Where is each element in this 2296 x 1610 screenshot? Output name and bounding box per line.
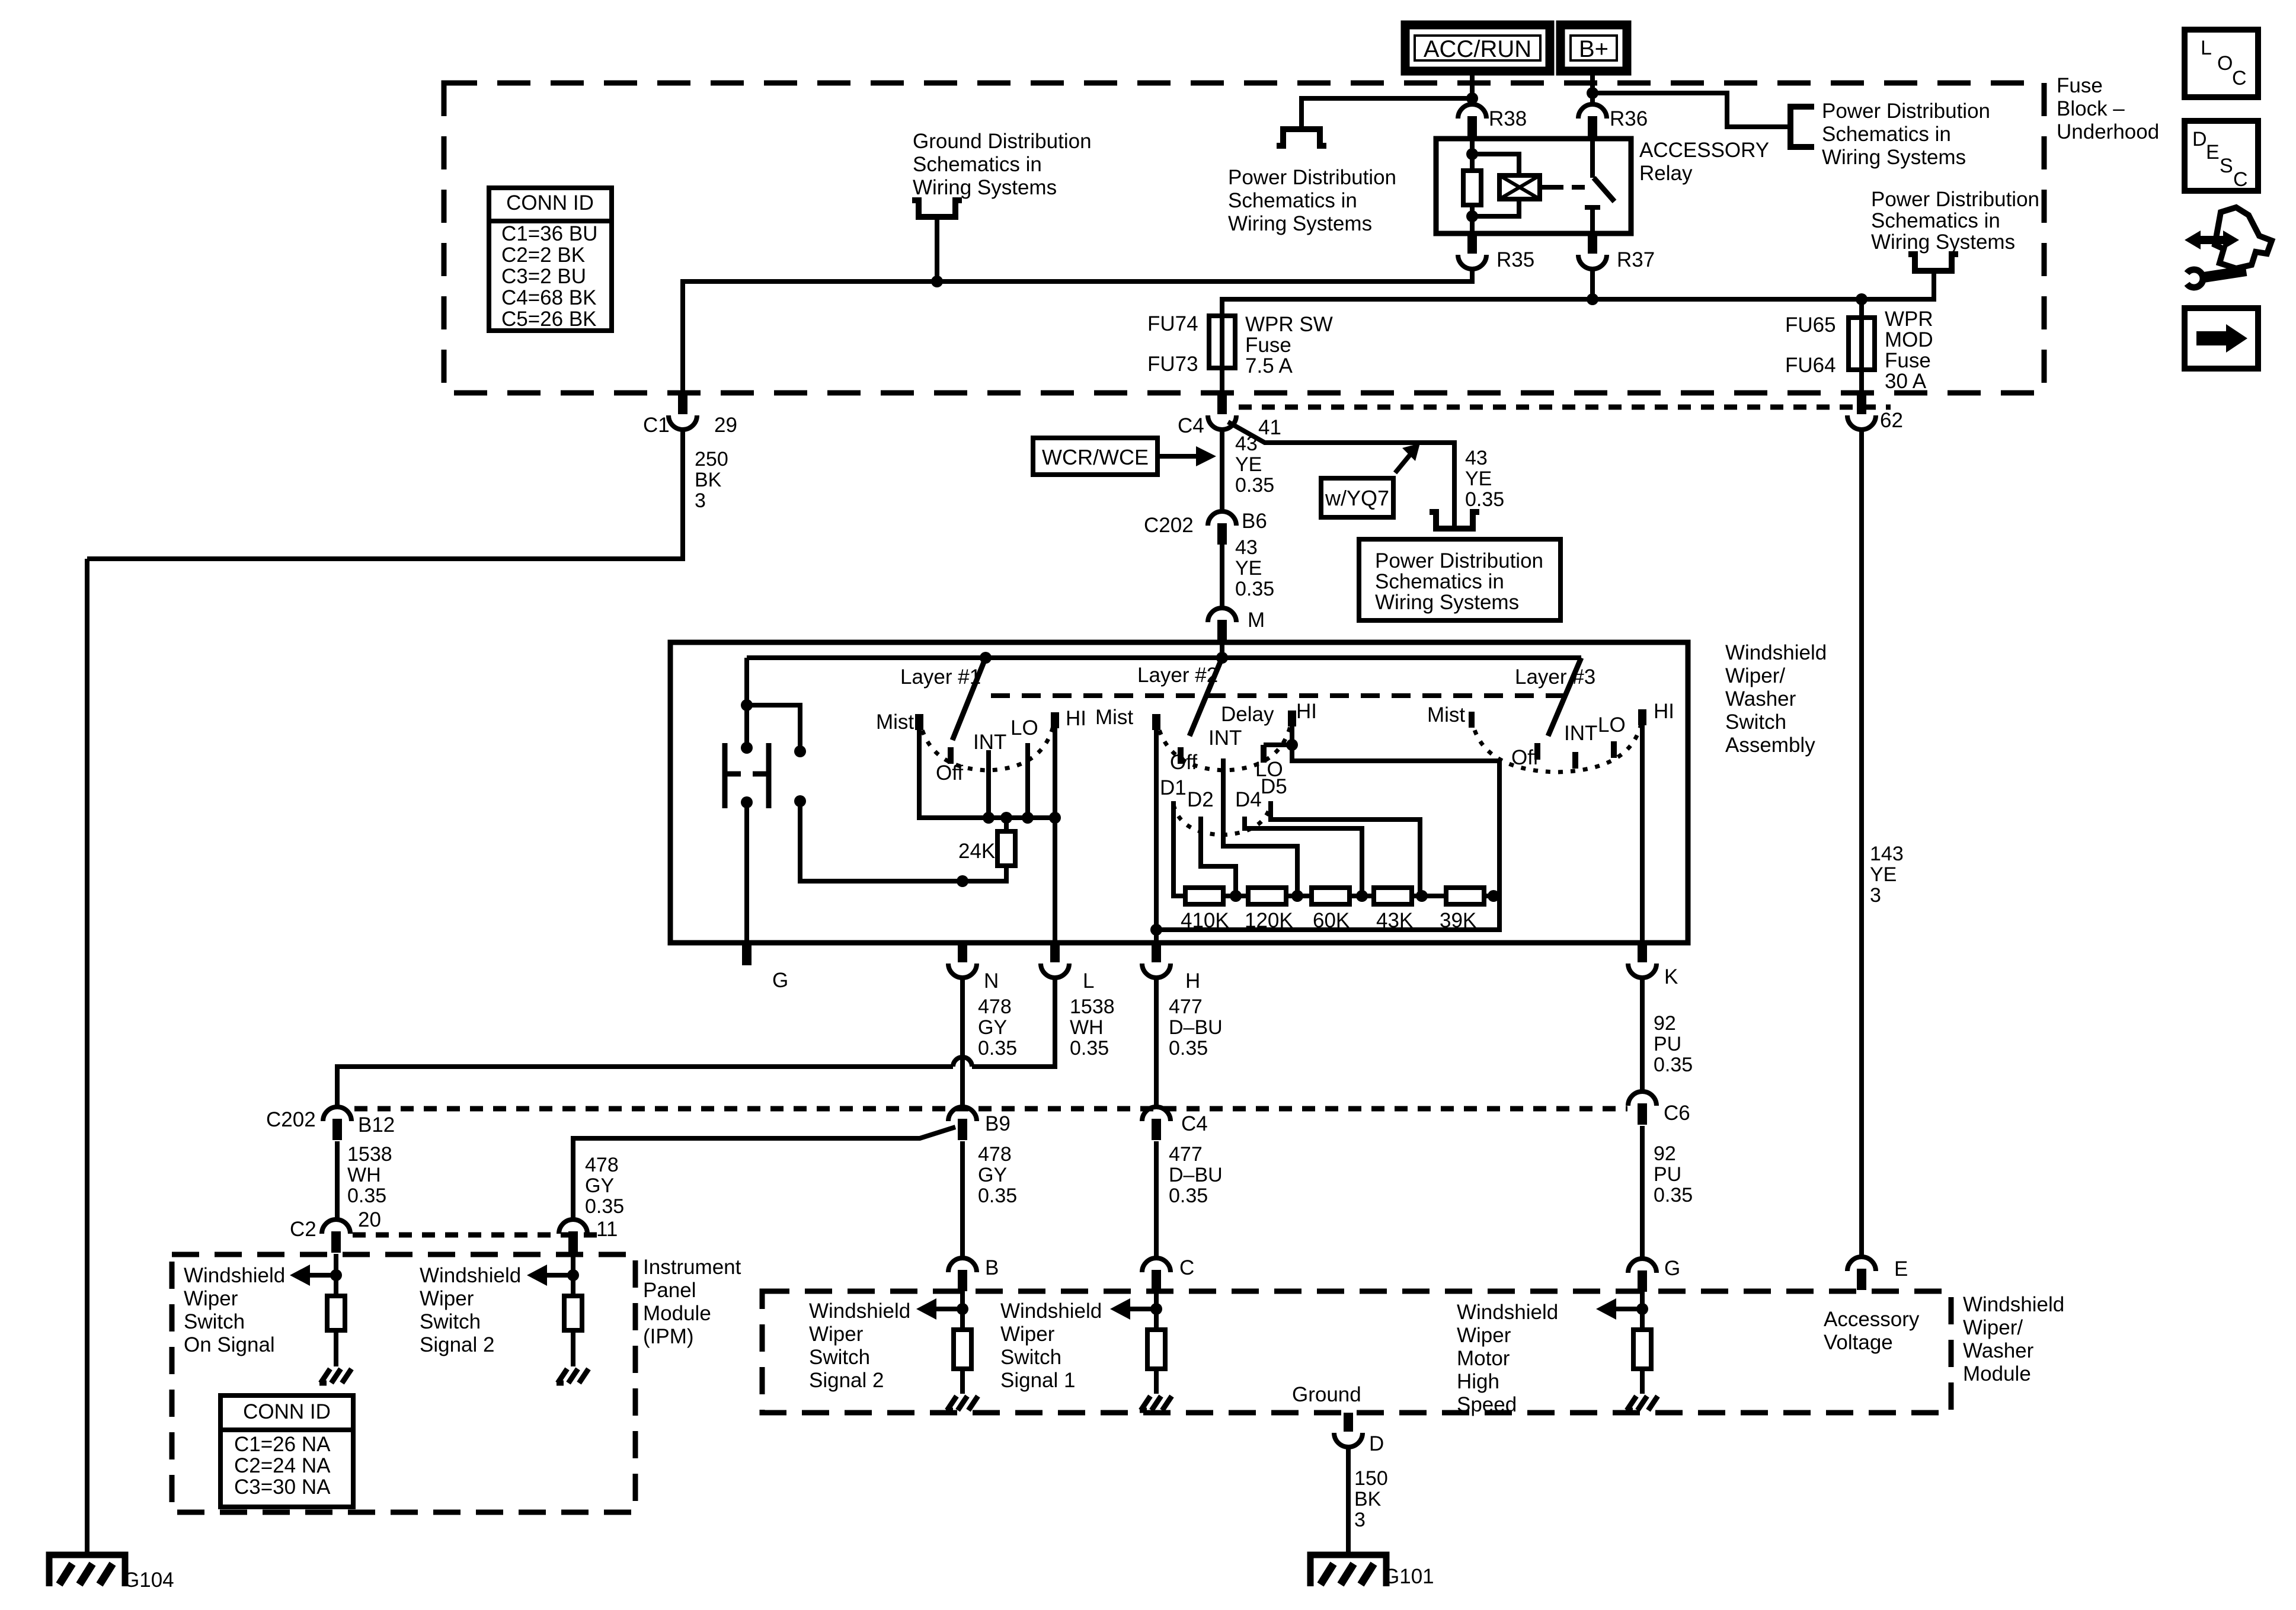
layer2 LO tick [1261,745,1267,763]
wire D1 to chain [1173,801,1185,896]
layer1 Off tick [948,747,954,764]
wire IPM 11 to ground [571,1330,575,1366]
svg-text:S: S [2220,155,2233,177]
svg-text:0.35: 0.35 [347,1185,386,1207]
connector C4 pin 41 [1217,394,1227,414]
layer2 Off tick [1178,747,1184,764]
svg-text:(IPM): (IPM) [643,1325,694,1348]
wire coil to contact dashes [1540,185,1550,190]
svg-text:GY: GY [978,1164,1007,1186]
svg-text:3: 3 [1870,884,1881,907]
svg-text:C1=26 NA: C1=26 NA [234,1433,331,1456]
relay switch lower contact [1585,205,1600,210]
svg-text:YE: YE [1465,468,1492,490]
node B+ box [1560,25,1627,71]
off-page bracket power distribution left [1277,129,1326,146]
svg-text:CONN ID: CONN ID [506,191,594,215]
svg-text:Layer #1: Layer #1 [900,665,981,689]
connector C202 pin C4 lower [1142,1107,1171,1121]
svg-text:WPR: WPR [1885,308,1933,331]
icon DESC box [2185,121,2258,191]
svg-text:0.35: 0.35 [1169,1037,1208,1060]
box power distribution schematics callout [1359,539,1560,620]
wire C6 to G [1640,1126,1645,1259]
svg-text:C4=68 BK: C4=68 BK [501,286,597,309]
wire B+ to R36 [1590,71,1595,105]
svg-text:Wiring Systems: Wiring Systems [1822,146,1966,169]
icon forward arrow box [2185,308,2258,369]
svg-text:D–BU: D–BU [1169,1164,1223,1186]
svg-text:HI: HI [1654,700,1674,723]
svg-text:Windshield: Windshield [809,1299,910,1323]
svg-text:O: O [2217,52,2233,75]
resistor IPM 20 [327,1296,345,1330]
svg-text:WH: WH [1070,1016,1104,1039]
svg-text:E: E [2206,141,2220,164]
washer switch lower contacts [741,796,753,808]
washer switch contact plates [722,743,728,808]
svg-text:478: 478 [585,1154,619,1176]
connector G module [1628,1259,1657,1273]
svg-text:LO: LO [1598,713,1626,737]
icon diagnostic wrench [2198,236,2225,244]
svg-text:D1: D1 [1160,776,1187,799]
svg-text:3: 3 [695,489,706,512]
svg-text:Panel: Panel [643,1279,696,1302]
svg-text:H: H [1185,969,1200,993]
svg-text:Switch: Switch [420,1310,481,1333]
connector IPM pin 11 [559,1219,587,1234]
connector C [1142,1258,1171,1272]
svg-text:M: M [1248,609,1265,632]
wire M into assembly [1220,641,1224,658]
svg-text:C1=36 BU: C1=36 BU [501,222,597,245]
svg-text:Wiper: Wiper [809,1323,864,1346]
svg-text:C202: C202 [1144,514,1194,537]
wire coil bottom branch [1472,199,1519,216]
layer2 INT line staircase [1223,758,1297,896]
svg-text:Power Distribution: Power Distribution [1375,549,1543,572]
svg-text:Wiper/: Wiper/ [1725,664,1785,687]
svg-text:Module: Module [643,1302,711,1325]
svg-text:PU: PU [1654,1033,1681,1055]
svg-text:FU64: FU64 [1785,354,1836,377]
svg-text:High: High [1457,1370,1499,1393]
svg-text:R35: R35 [1496,248,1534,271]
wire IPM 11 interior [571,1254,575,1296]
svg-text:Windshield: Windshield [1725,641,1827,664]
connector R37 [1588,233,1597,254]
svg-text:C6: C6 [1664,1102,1690,1125]
svg-text:On Signal: On Signal [184,1333,275,1356]
svg-text:C2=2 BK: C2=2 BK [501,244,585,267]
layer3 Mist tick [1469,712,1475,728]
svg-text:B+: B+ [1579,36,1609,62]
svg-text:Mist: Mist [876,710,914,734]
svg-text:Motor: Motor [1457,1347,1510,1370]
svg-text:HI: HI [1296,700,1317,723]
svg-text:Signal 2: Signal 2 [809,1369,884,1392]
layer1 LO line [1025,743,1030,818]
svg-text:Mist: Mist [1427,703,1465,726]
layer3 INT tick [1572,752,1578,769]
resistor chain wire [1185,894,1499,898]
svg-text:K: K [1664,965,1678,988]
resistor relay internal [1463,171,1481,205]
svg-text:Wiper: Wiper [1000,1323,1055,1346]
svg-text:60K: 60K [1313,909,1350,932]
svg-text:0.35: 0.35 [1465,488,1504,511]
connector B [948,1258,977,1272]
fuse FU74 WPR SW [1220,316,1224,393]
wire B6 to M [1220,545,1224,608]
svg-text:43K: 43K [1376,909,1413,932]
svg-text:BK: BK [695,469,722,491]
wire module G ground [1640,1369,1645,1394]
wire module C interior [1154,1291,1159,1330]
arrow windshield wiper switch on signal [309,1273,336,1278]
off-page bracket ground distribution [912,200,962,217]
wire B9 to B [960,1141,965,1258]
svg-text:WH: WH [347,1164,381,1186]
svg-text:G: G [772,969,788,992]
svg-text:Switch: Switch [184,1310,245,1333]
svg-text:41: 41 [1258,416,1281,439]
svg-text:11: 11 [596,1218,618,1241]
layer3 HI line to K terminal [1640,709,1645,943]
svg-text:Accessory: Accessory [1824,1308,1920,1331]
svg-text:R37: R37 [1617,248,1655,271]
svg-text:Switch: Switch [1725,710,1786,734]
conn id table IPM [220,1395,353,1507]
wire module B interior [960,1291,965,1330]
off-page bracket wYQ7 feed [1430,512,1479,529]
svg-text:120K: 120K [1245,909,1293,932]
svg-text:Ground: Ground [1292,1383,1361,1406]
layer2 delay arc [1173,805,1271,835]
instrument panel module box [172,1254,635,1512]
connector C202 pin C6 [1628,1092,1657,1106]
layer1 blade [952,658,986,740]
svg-text:E: E [1894,1257,1908,1281]
layer1 INT line [986,750,991,818]
wire D5 to chain [1271,801,1420,896]
arrow wYQ7 [1395,453,1412,473]
layer1 Mist line [919,714,1055,818]
svg-text:Windshield: Windshield [420,1264,521,1287]
svg-text:Wiper: Wiper [420,1287,474,1310]
svg-text:Signal 2: Signal 2 [420,1333,494,1356]
resistor 60K [1312,888,1350,904]
svg-text:C: C [2232,67,2247,89]
resistor module G [1633,1330,1651,1369]
box wYQ7 [1321,478,1393,517]
svg-text:3: 3 [1354,1509,1366,1531]
arrow WCR/WCE [1157,454,1198,459]
svg-text:477: 477 [1169,996,1203,1018]
svg-text:62: 62 [1880,409,1903,432]
svg-text:Underhood: Underhood [2057,120,2159,143]
svg-text:250: 250 [695,448,728,470]
svg-text:CONN ID: CONN ID [243,1400,331,1423]
wire ground distribution drop [935,217,939,281]
svg-text:Relay: Relay [1639,162,1693,185]
connector E [1847,1257,1876,1271]
svg-text:7.5 A: 7.5 A [1245,354,1293,377]
arrow windshield wiper switch signal 2 IPM [546,1273,573,1278]
svg-text:FU73: FU73 [1147,353,1198,376]
svg-text:Schematics in: Schematics in [1822,123,1951,146]
svg-text:D5: D5 [1261,775,1287,798]
ground G101 [1310,1555,1386,1586]
svg-text:D–BU: D–BU [1169,1016,1223,1039]
ground module C [1141,1396,1150,1410]
svg-text:Washer: Washer [1963,1339,2034,1362]
svg-text:0.35: 0.35 [1235,578,1274,600]
connector C202 pin B12 [323,1107,351,1121]
wire coil top branch [1472,154,1519,177]
node junction ground distribution drop [931,276,943,287]
resistor 39K [1446,888,1484,904]
wire K to C6 [1640,978,1645,1092]
svg-text:C2=24 NA: C2=24 NA [234,1454,331,1477]
svg-text:D: D [1369,1432,1384,1455]
node chain junctions [1230,890,1242,902]
terminal G stub [742,943,752,965]
node junction layer2 mist bottom [1150,924,1162,936]
ground IPM 20 [321,1369,330,1383]
svg-text:Off: Off [1511,746,1539,769]
svg-text:Voltage: Voltage [1824,1331,1893,1354]
svg-text:B12: B12 [358,1113,395,1137]
svg-text:C: C [2233,168,2248,191]
svg-text:Off: Off [1170,751,1197,774]
svg-text:Windshield: Windshield [1457,1301,1558,1324]
svg-text:143: 143 [1870,843,1904,865]
wire L to B12 with hop [972,978,1055,1067]
svg-text:LO: LO [1011,716,1038,740]
wire D2 to chain [1201,817,1236,896]
layer1 HI line to L terminal [1053,712,1057,943]
svg-text:477: 477 [1169,1143,1203,1166]
svg-text:L: L [1083,969,1094,993]
connector C1 pin 29 [678,394,687,414]
node junction N tap [957,875,968,887]
svg-text:D4: D4 [1235,788,1262,811]
washer switch upper branch [747,705,800,747]
svg-text:43: 43 [1235,536,1258,559]
relay switch blade [1594,178,1614,201]
svg-text:Fuse: Fuse [2057,74,2103,97]
connector 62 [1857,394,1866,414]
svg-text:20: 20 [358,1208,381,1231]
svg-text:Speed: Speed [1457,1393,1517,1416]
svg-text:C2: C2 [290,1218,316,1241]
svg-text:150: 150 [1354,1467,1388,1490]
wire relay coil leg [1470,137,1475,171]
layer2 Mist line to H terminal [1154,714,1159,943]
svg-text:30 A: 30 A [1885,370,1927,393]
svg-text:G: G [1664,1257,1680,1280]
svg-text:1538: 1538 [1070,996,1115,1018]
ground IPM 11 [558,1369,567,1383]
svg-text:BK: BK [1354,1488,1382,1510]
svg-text:YE: YE [1870,863,1897,886]
svg-text:43: 43 [1465,447,1488,469]
svg-text:Windshield: Windshield [1000,1299,1102,1323]
svg-text:Wiring Systems: Wiring Systems [1375,591,1519,614]
svg-text:INT: INT [1564,722,1597,745]
svg-text:24K: 24K [958,840,995,863]
arrow windshield wiper switch signal 1 [1129,1307,1156,1311]
connector R38 [1458,104,1486,119]
svg-text:410K: 410K [1181,909,1229,932]
svg-text:0.35: 0.35 [585,1195,624,1218]
node junction ACC/RUN [1466,92,1478,104]
svg-text:w/YQ7: w/YQ7 [1325,486,1389,510]
svg-text:HI: HI [1066,707,1086,730]
layer3 Off tick [1534,743,1540,760]
svg-text:GY: GY [585,1174,614,1197]
svg-text:Wiring Systems: Wiring Systems [913,176,1057,199]
svg-text:N: N [984,969,999,993]
svg-text:Instrument: Instrument [643,1256,741,1279]
node junction layer1 pivot [980,652,992,664]
connector C2 pin 20 [322,1219,350,1234]
layer3 blade [1548,658,1581,736]
connector N [958,942,967,962]
wire washer to 24K bottom rail [800,805,1006,881]
resistor 120K [1248,888,1286,904]
wire 62 to E [1859,430,1864,1257]
wire branch B+ to right bracket [1593,93,1790,127]
node coil bottom junction [1466,210,1478,222]
wire module C ground [1154,1369,1159,1394]
svg-text:C1: C1 [643,414,670,437]
svg-text:Module: Module [1963,1362,2031,1385]
node junction R37 bus [1587,293,1598,305]
conn id table fuse block [489,188,612,331]
svg-text:C3=30 NA: C3=30 NA [234,1475,331,1499]
relay U-ACCESSORY box [1436,139,1631,233]
wire IPM 20 interior [334,1254,338,1296]
inline connector dotted row C2 [353,1233,599,1238]
svg-text:Schematics in: Schematics in [1871,209,2000,232]
connector H [1152,942,1161,962]
svg-text:Fuse: Fuse [1245,334,1291,357]
ground module G [1627,1396,1636,1410]
inline connector dotted row C4 [1239,405,1891,410]
wire H to C4 connector [1154,978,1159,1107]
svg-text:YE: YE [1235,453,1262,476]
svg-text:Power Distribution: Power Distribution [1871,188,2039,211]
wire B12 to C2 [335,1141,340,1219]
svg-text:0.35: 0.35 [1654,1184,1693,1206]
fuse FU65 WPR MOD [1859,299,1864,393]
svg-text:YE: YE [1235,557,1262,580]
wire bus R35 to C1 [683,269,1472,393]
svg-text:1538: 1538 [347,1143,392,1166]
svg-text:G101: G101 [1383,1565,1434,1588]
wire N to B9 [960,978,965,1107]
svg-text:C5=26 BK: C5=26 BK [501,308,597,331]
svg-text:Delay: Delay [1221,703,1274,726]
svg-text:FU65: FU65 [1785,313,1836,337]
svg-text:C202: C202 [266,1108,316,1131]
wire module B ground [960,1369,965,1394]
svg-text:MOD: MOD [1885,328,1933,351]
svg-text:Wiring Systems: Wiring Systems [1871,231,2015,254]
svg-text:Ground Distribution: Ground Distribution [913,130,1092,153]
svg-text:0.35: 0.35 [978,1037,1017,1060]
node junction B+ [1587,87,1598,99]
node junction FU65 bus [1856,293,1868,305]
svg-text:0.35: 0.35 [978,1185,1017,1207]
washer switch feed wire [744,658,749,743]
svg-text:Assembly: Assembly [1725,734,1815,757]
box WCR/WCE [1033,438,1157,475]
wire B9 branch to IPM 11 [573,1127,955,1219]
resistor module C [1147,1330,1165,1369]
layer3 LO tick [1611,741,1617,758]
svg-text:C3=2 BU: C3=2 BU [501,265,586,288]
svg-text:0.35: 0.35 [1169,1185,1208,1207]
wire assembly top bus [747,655,1581,660]
layer2 HI line [1156,710,1499,930]
svg-text:G104: G104 [123,1569,174,1592]
layer2 HI-LO tie [1264,742,1292,747]
wire ground G104 drop [85,559,89,1554]
off-page bracket power distribution right [1790,107,1814,147]
node ACC/RUN box [1405,25,1550,71]
windshield wiper washer module box [762,1291,1951,1413]
connector R36 [1578,104,1607,119]
relay coil box [1499,175,1540,199]
wire IPM 20 to ground [334,1330,338,1366]
connector C202 pin B6 [1208,511,1236,526]
svg-text:GY: GY [978,1016,1007,1039]
svg-text:B6: B6 [1242,510,1267,533]
svg-text:478: 478 [978,996,1012,1018]
svg-text:Wiper: Wiper [184,1287,238,1310]
wire C4 to C202 B6 [1220,430,1224,512]
svg-text:R38: R38 [1489,107,1527,130]
inline connector dotted row C202 [354,1106,1627,1112]
svg-text:Layer #2: Layer #2 [1137,664,1218,687]
layer separator dashed line [991,693,1568,698]
wire relay switch upper [1590,137,1595,178]
node coil top junction [1466,148,1478,160]
svg-text:WCR/WCE: WCR/WCE [1042,445,1149,469]
svg-text:Washer: Washer [1725,687,1796,710]
svg-text:Windshield: Windshield [184,1264,285,1287]
svg-text:Off: Off [936,761,963,785]
svg-text:C4: C4 [1178,414,1204,437]
svg-text:L: L [2201,37,2212,59]
ground module B [947,1396,957,1410]
svg-text:0.35: 0.35 [1070,1037,1109,1060]
svg-text:Signal 1: Signal 1 [1000,1369,1075,1392]
svg-text:INT: INT [1208,726,1242,750]
wire bus R37 FU65 [1590,269,1595,299]
svg-text:Fuse: Fuse [1885,349,1931,372]
svg-text:Wiper: Wiper [1457,1324,1511,1347]
connector K [1638,942,1647,962]
svg-text:Schematics in: Schematics in [1228,189,1357,212]
wire module G interior [1640,1292,1645,1330]
svg-text:0.35: 0.35 [1654,1054,1693,1076]
wire C1 to G104 corner [87,430,683,559]
